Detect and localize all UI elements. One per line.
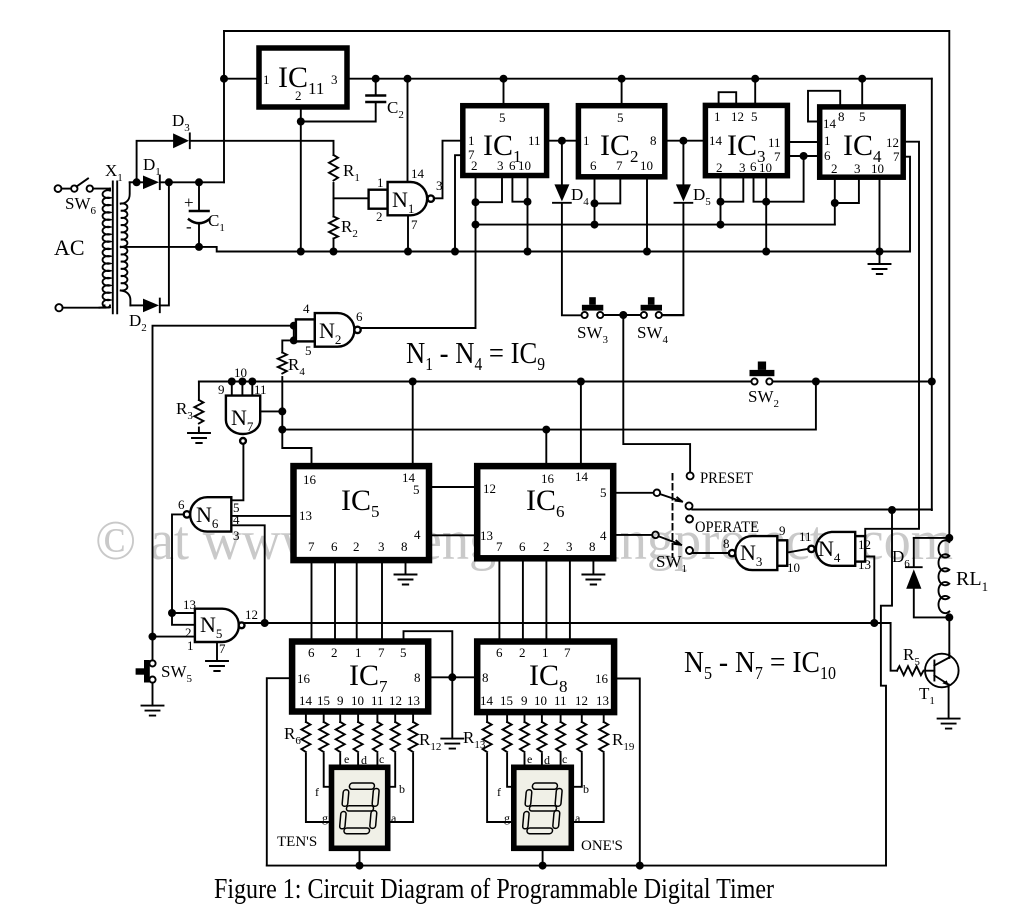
gate N1 nand: [369, 182, 434, 215]
svg-text:TEN'S: TEN'S: [277, 834, 317, 850]
svg-text:12: 12: [858, 537, 871, 552]
svg-text:8: 8: [650, 133, 657, 148]
switch SW4 pushbutton: [641, 297, 662, 318]
svg-text:1: 1: [355, 645, 362, 660]
wire center tap to ground rail: [127, 157, 911, 252]
svg-text:12: 12: [731, 109, 744, 124]
node IC7 IC8 pin8 ground junction: [448, 673, 456, 681]
wire IC6 pin5 to SW1 pole1: [613, 492, 653, 494]
svg-text:2: 2: [353, 539, 360, 554]
wire segment c ONE: [560, 754, 562, 768]
resistor R16: [537, 722, 546, 752]
node IC2 pin7 junction: [591, 199, 599, 207]
svg-text:+: +: [184, 193, 194, 212]
wire segment b ONE: [571, 754, 582, 787]
svg-text:6: 6: [519, 539, 526, 554]
node preset line IC3 pin2: [717, 221, 725, 229]
wire IC6 pin3 to IC8 pin7: [569, 558, 571, 641]
svg-text:15: 15: [317, 693, 330, 708]
svg-text:9: 9: [779, 523, 786, 538]
wire SW1 lower contact to N3: [693, 552, 729, 554]
node C2 bottom junction: [297, 118, 305, 126]
wire IC3 pin7 to IC4 pin6: [787, 155, 819, 157]
diode D4: [553, 184, 571, 202]
transformer X1 primary coil: [103, 190, 110, 307]
diode D2: [143, 299, 160, 313]
wire C2 bottom lead: [301, 102, 376, 122]
wire latch feedback vertical: [282, 382, 311, 467]
svg-text:Figure 1: Circuit Diagram of P: Figure 1: Circuit Diagram of Programmabl…: [214, 873, 774, 905]
wire N5 output line to N4 pin13 net: [245, 622, 875, 624]
resistor R8: [336, 722, 345, 752]
ground symbol R3: [188, 433, 210, 443]
wire ONES display common: [542, 849, 544, 866]
svg-text:a: a: [391, 811, 397, 825]
svg-text:6: 6: [509, 158, 516, 173]
switch SW1 operate contact: [686, 516, 693, 523]
wire IC6 pin14 riser: [580, 382, 582, 467]
wire SW5 net drop to button: [152, 637, 154, 661]
transformer X1 secondary lower: [121, 247, 128, 290]
wire D5 drop from clock line: [682, 141, 684, 185]
svg-text:14: 14: [709, 133, 723, 148]
wire IC1 pin5 riser: [503, 79, 505, 106]
wire IC3 pin6 jog: [754, 176, 804, 202]
svg-text:b: b: [399, 782, 405, 796]
wire transformer secondary top lead: [130, 181, 143, 183]
wire N1 output to IC1 pin1: [434, 141, 463, 199]
svg-text:8: 8: [401, 539, 408, 554]
wire N4 pin13 feed to R5: [874, 623, 897, 671]
svg-text:3: 3: [497, 158, 504, 173]
node N4 pin13 junction: [870, 619, 878, 627]
svg-text:f: f: [315, 785, 319, 799]
node IC3 pin3 junction: [717, 198, 725, 206]
wire IC6 pin4 to SW1 pole2: [613, 534, 652, 536]
svg-text:c: c: [562, 752, 567, 766]
wire R5 to T1 base: [927, 670, 935, 672]
svg-text:10: 10: [534, 693, 547, 708]
svg-text:10: 10: [640, 158, 653, 173]
resistor R17: [556, 722, 565, 752]
svg-text:16: 16: [297, 671, 311, 686]
gate N6 triple nand: [184, 497, 232, 531]
wire R2 bottom to ground rail: [333, 239, 335, 252]
svg-text:OPERATE: OPERATE: [695, 519, 759, 536]
wire segment g TEN: [306, 754, 332, 822]
switch SW1 upper throw contact: [686, 503, 693, 510]
IC IC1 counter: [463, 106, 547, 176]
svg-text:6: 6: [824, 148, 831, 163]
node N1 VDD junction: [404, 75, 412, 83]
wire IC6 pin8 ground stub: [592, 558, 594, 574]
node D4 clock junction: [558, 137, 566, 145]
wire IC5 pin14 riser: [412, 382, 414, 467]
svg-text:10: 10: [871, 161, 884, 176]
wire top +9V loop to relay: [224, 31, 949, 535]
wire D4 cathode to SW3: [562, 204, 581, 316]
wire AC live to SW6: [62, 188, 72, 190]
wire segment a ONE: [571, 754, 603, 822]
switch SW2 pushbutton: [750, 362, 775, 385]
node N5 pin13 junction: [168, 609, 176, 617]
svg-text:2: 2: [471, 158, 478, 173]
wire segment g ONE: [487, 754, 514, 822]
switch SW1 pole2: [652, 532, 659, 539]
svg-text:3: 3: [233, 528, 240, 543]
svg-text:1: 1: [714, 109, 721, 124]
svg-text:11: 11: [554, 693, 567, 708]
wire N6 pin4 to IC5 pin13: [231, 515, 293, 517]
svg-text:13: 13: [183, 597, 196, 612]
svg-text:8: 8: [482, 670, 489, 685]
wire IC5 pin7 to IC7 pin6: [311, 560, 313, 641]
ground symbol T1 emitter: [938, 719, 960, 729]
switch SW6 lever: [77, 179, 89, 187]
svg-text:2: 2: [716, 160, 723, 175]
resistor R13: [483, 722, 492, 752]
svg-text:6: 6: [356, 309, 363, 324]
wire segment d TEN: [357, 754, 359, 768]
wire IC4 pin5 riser: [861, 79, 863, 107]
ground symbol main rail: [869, 264, 891, 274]
node ground rail N1 pin7: [404, 248, 412, 256]
wire T1 emitter to ground: [948, 687, 950, 719]
wire D3 cathode to R1: [191, 141, 333, 155]
IC IC3 counter: [705, 105, 787, 175]
resistor R12: [409, 722, 418, 752]
node N2 input pin5: [290, 336, 298, 344]
svg-text:5: 5: [617, 110, 624, 125]
svg-text:AC: AC: [54, 235, 85, 260]
wire IC6 pin16 riser: [545, 430, 547, 467]
wire IC4 pin7 ground note: part of rail: [879, 252, 881, 265]
resistor R14: [503, 722, 512, 752]
ground symbol IC5 pin8: [395, 575, 417, 585]
svg-text:12: 12: [575, 693, 588, 708]
svg-text:7: 7: [496, 539, 503, 554]
switch SW1 pole1 arm: [660, 494, 682, 502]
gate N5 triple nand: [195, 609, 245, 642]
svg-text:3: 3: [739, 160, 746, 175]
node ground rail IC1 pin7: [451, 248, 459, 256]
svg-text:11: 11: [254, 382, 267, 397]
node N7 pin11: [248, 378, 256, 386]
svg-text:10: 10: [518, 158, 531, 173]
node relay top junction: [945, 534, 953, 542]
diode D1: [143, 176, 160, 190]
node IC11 pin1 junction: [220, 75, 228, 83]
wire SW2 reset line: [199, 381, 932, 383]
node rectifier output junction: [165, 178, 173, 186]
PARTS: [55, 48, 960, 848]
wire D4 drop from clock line: [561, 141, 563, 185]
node IC4 pin3 junction: [831, 199, 839, 207]
svg-text:1: 1: [377, 175, 384, 190]
node SW3 SW4 tap: [619, 311, 627, 319]
wire segment e ONE: [524, 754, 526, 768]
node N5 output junction: [261, 619, 269, 627]
node bottom rail IC8 pin16: [636, 862, 644, 870]
wire D5 cathode to SW4: [662, 204, 683, 316]
svg-text:4: 4: [600, 528, 607, 543]
diode D3: [173, 133, 190, 148]
switch SW6 pole: [71, 185, 77, 191]
node N5 pin1 SW5 junction: [149, 633, 157, 641]
wire IC2 pin7 jog: [595, 177, 621, 204]
terminal AC neutral: [55, 304, 62, 311]
wire segment f TEN: [324, 754, 332, 787]
wire N6 pin3 to N5 output: [231, 525, 264, 623]
node IC3 pin10 cross junction: [762, 198, 770, 206]
wire IC4 jumper pins 8-14: [808, 91, 840, 122]
wire operate line to SW1 contact: [692, 509, 932, 511]
svg-text:7: 7: [219, 641, 226, 656]
node ground rail R2: [330, 248, 338, 256]
svg-text:7: 7: [893, 149, 900, 164]
wire IC1 pin11 to IC2 pin1: [547, 140, 579, 142]
node N2 input pin4: [290, 322, 298, 330]
wire IC3 pin6 riser to pin7 line: [803, 156, 805, 202]
svg-text:12: 12: [483, 481, 496, 496]
wire N2 input to SW5 net left vertical: [153, 326, 294, 637]
svg-text:11: 11: [768, 135, 781, 150]
wire D6 cathode riser: [913, 538, 915, 567]
node IC1 pin3 junction: [472, 198, 480, 206]
wire IC8 pin16 to bottom rail: [614, 679, 640, 866]
wire IC8 resistor stubs: [487, 712, 604, 722]
wire IC6 pin2 to IC8 pin1: [545, 558, 547, 641]
node N7 side output: [278, 407, 286, 415]
wire IC5 pin5 to IC6 pin12: [429, 486, 477, 488]
wire IC11 pin2 drop to ground rail: [300, 110, 302, 252]
wire IC1 pin6 jog: [512, 176, 527, 202]
wire segment a TEN: [387, 754, 413, 822]
svg-text:13: 13: [858, 557, 871, 572]
svg-text:9: 9: [337, 693, 344, 708]
node D5 clock junction: [679, 137, 687, 145]
svg-text:b: b: [583, 782, 589, 796]
wire IC3 pin2 drop: [720, 176, 722, 225]
svg-text:3: 3: [436, 178, 443, 193]
svg-text:1: 1: [583, 133, 590, 148]
node N7 pin10: [238, 378, 246, 386]
wire N7 output to N6 pin5: [231, 444, 243, 501]
resistor R15: [520, 722, 529, 752]
resistor R1: [329, 155, 338, 181]
diode D6: [906, 567, 922, 589]
wire IC5 pin3 to IC7 pin7: [381, 560, 383, 641]
svg-text:16: 16: [303, 472, 317, 487]
svg-text:6: 6: [308, 645, 315, 660]
wire N4 pin13 stub: [865, 557, 874, 624]
wire IC4 pin2 drop: [834, 177, 836, 224]
wire relay bottom to T1 collector: [948, 617, 950, 657]
svg-text:PRESET: PRESET: [700, 470, 753, 487]
node N7 pin9: [228, 378, 236, 386]
resistor R5: [897, 666, 923, 675]
wire R3 to ground: [198, 428, 200, 434]
transformer secondary bottom bend: [121, 291, 131, 306]
wire TENS display common: [359, 849, 361, 866]
svg-text:8: 8: [838, 109, 845, 124]
svg-text:3: 3: [854, 161, 861, 176]
wire IC7 pin8 to IC8 pin8: [428, 676, 477, 678]
switch SW6 throw: [87, 185, 93, 191]
wire IC1 pin10 to ground rail: [527, 176, 529, 252]
wire AC neutral to primary bottom: [63, 306, 111, 308]
wire IC5 pin4 to IC6 pin13: [429, 534, 477, 536]
wire C1 top lead: [198, 182, 200, 211]
wire segment b TEN: [387, 754, 395, 787]
svg-text:6: 6: [750, 159, 757, 174]
IC IC4 counter: [820, 107, 904, 177]
resistor R3: [194, 400, 203, 424]
wire D6 anode to relay bottom: [914, 589, 950, 618]
IC IC5: [294, 466, 430, 560]
svg-text:10: 10: [759, 160, 772, 175]
gate N4 nand: [808, 532, 865, 566]
resistor R9: [354, 722, 363, 752]
resistor R7: [319, 722, 328, 752]
svg-text:11: 11: [528, 133, 541, 148]
svg-text:14: 14: [299, 693, 313, 708]
wire N5 pin13 stub: [172, 612, 195, 614]
switch SW1 preset contact: [687, 472, 694, 479]
resistor R2: [329, 217, 338, 239]
capacitor C2: [367, 96, 386, 103]
display TENS seven segment: [332, 767, 388, 848]
svg-text:7: 7: [616, 158, 623, 173]
resistor R10: [373, 722, 382, 752]
wire SW6 to primary top: [93, 188, 110, 190]
wire IC11 pin3 +9V rail: [347, 78, 932, 80]
wire segment f ONE: [507, 754, 514, 787]
wire ground node stem: [451, 677, 453, 738]
svg-text:12: 12: [886, 135, 899, 150]
wire D1 D2 cathode junction: [161, 182, 169, 305]
wire IC2 pin6 drop: [594, 177, 596, 225]
IC IC6: [477, 466, 613, 558]
wire N2 inputs to R4: [282, 326, 294, 353]
node reset line +9V vertical: [928, 378, 936, 386]
switch SW3 pushbutton: [582, 297, 604, 318]
wire IC7 pin5 jog to ground node: [404, 631, 453, 677]
svg-text:16: 16: [541, 471, 555, 486]
wire IC3 pin3 jog: [721, 176, 744, 202]
node C1 bottom junction: [195, 243, 203, 251]
switch SW1 lower throw contact: [686, 547, 693, 554]
svg-text:1: 1: [187, 638, 194, 653]
gate N7 triple nand: [226, 396, 260, 444]
node IC3 pin7 riser junction: [800, 152, 808, 160]
node preset line IC2 pin6: [591, 221, 599, 229]
IC IC11 voltage regulator: [259, 48, 347, 107]
wire D3 anode lead: [137, 141, 173, 183]
svg-text:8: 8: [723, 536, 730, 551]
svg-text:5: 5: [600, 485, 607, 500]
svg-text:f: f: [497, 785, 501, 799]
svg-text:2: 2: [519, 645, 526, 660]
wire SW5 to ground: [152, 683, 154, 706]
diode D5: [675, 184, 693, 202]
transformer primary bottom bend: [100, 305, 105, 307]
wire IC3 jumper pins 1-12: [719, 92, 737, 105]
svg-text:7: 7: [564, 645, 571, 660]
transformer primary top bend: [109, 189, 111, 191]
svg-text:12: 12: [389, 693, 402, 708]
wire IC11 pin1 stub: [224, 78, 259, 80]
node reset line IC6 pin14: [577, 378, 585, 386]
wire IC3 pin10 to ground rail: [765, 176, 767, 252]
node IC1 pin6 junction: [524, 198, 532, 206]
wire IC1 pin2 net to N2 output: [361, 176, 476, 329]
svg-text:7: 7: [411, 217, 418, 232]
svg-text:8: 8: [414, 670, 421, 685]
node ground rail IC2 pin10: [643, 248, 651, 256]
transformer secondary top bend: [121, 182, 130, 204]
svg-text:14: 14: [823, 116, 837, 131]
wire +9V right vertical to operate line: [931, 79, 933, 510]
wire IC1 pin7 to ground rail: [455, 155, 463, 251]
node IC1 pin5 junction: [500, 75, 508, 83]
svg-text:5: 5: [400, 645, 407, 660]
svg-text:5: 5: [751, 109, 758, 124]
node reset line IC5 pin14: [409, 378, 417, 386]
svg-text:13: 13: [407, 693, 420, 708]
wire IC1 pin3 jog: [476, 176, 503, 203]
wire R1 bottom to R2 top junction: [333, 183, 335, 217]
switch SW5 pushbutton: [136, 660, 156, 683]
svg-text:1: 1: [263, 72, 270, 87]
wire segment d ONE: [541, 754, 543, 768]
svg-text:14: 14: [480, 693, 494, 708]
node ground rail IC1 pin10: [524, 248, 532, 256]
wire IC5 pin6 to IC7 pin2: [334, 560, 336, 641]
wire R1R2 junction to N1 inputs: [334, 197, 369, 199]
transistor T1: [925, 654, 959, 688]
wire IC6 pin6 to IC8 pin2: [522, 558, 524, 641]
wire preset count line: [476, 224, 835, 226]
wire SW3 SW4 series line: [604, 314, 684, 316]
wire IC2 pin5 riser: [621, 79, 623, 106]
svg-text:ONE'S: ONE'S: [581, 838, 623, 854]
svg-text:14: 14: [575, 469, 589, 484]
resistor R19: [599, 722, 608, 752]
transformer X1 core: [113, 182, 117, 314]
node bottom rail TENS display: [356, 862, 364, 870]
node bottom rail ONES display: [539, 862, 547, 870]
ground symbol N5 pin7: [206, 661, 228, 671]
svg-text:4: 4: [414, 527, 421, 542]
capacitor C1 electrolytic: [189, 211, 209, 223]
wire IC3 pin5 riser: [754, 79, 756, 106]
relay RL1 coil: [938, 540, 949, 613]
wire N6 output to N5 inputs: [172, 514, 195, 624]
svg-text:e: e: [527, 752, 532, 766]
svg-text:4: 4: [303, 301, 310, 316]
wire segment c TEN: [376, 754, 378, 768]
svg-text:9: 9: [218, 382, 225, 397]
svg-text:2: 2: [831, 161, 838, 176]
node C2 top junction: [372, 75, 380, 83]
node preset line IC1 pin2: [472, 221, 480, 229]
svg-text:10: 10: [787, 560, 800, 575]
node D1 D3 anode junction: [133, 178, 141, 186]
svg-text:11: 11: [371, 693, 384, 708]
wire latch line to SW2 net riser: [282, 382, 816, 430]
wire IC7 resistor stubs: [306, 712, 413, 723]
